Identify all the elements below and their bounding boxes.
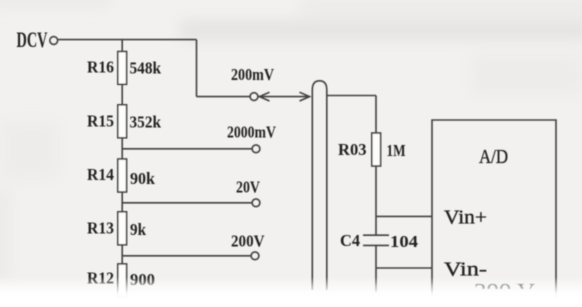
input jack (probe barrel) bbox=[312, 81, 327, 290]
resistor R14 bbox=[118, 159, 127, 192]
wire bbox=[121, 245, 123, 264]
svg-text:R14: R14 bbox=[87, 165, 114, 184]
resistor R13 bbox=[118, 212, 127, 245]
terminal 2000mV bbox=[252, 145, 260, 153]
svg-text:R15: R15 bbox=[87, 112, 114, 131]
wire bbox=[375, 245, 377, 268]
wire bbox=[375, 268, 377, 292]
svg-text:90k: 90k bbox=[130, 169, 156, 188]
svg-text:352k: 352k bbox=[130, 113, 162, 132]
svg-text:104: 104 bbox=[390, 232, 419, 251]
svg-text:9k: 9k bbox=[130, 220, 146, 239]
resistor R03 bbox=[372, 133, 381, 166]
wire bbox=[58, 39, 197, 41]
svg-text:A/D: A/D bbox=[479, 146, 508, 168]
svg-text:20V: 20V bbox=[236, 178, 261, 197]
svg-text:1M: 1M bbox=[387, 141, 406, 160]
wire bbox=[121, 84, 123, 105]
wire bbox=[375, 166, 377, 216]
wire bbox=[197, 96, 251, 98]
wire bbox=[121, 138, 123, 159]
resistor R15 bbox=[118, 105, 127, 138]
wire bbox=[375, 96, 377, 134]
wire bbox=[121, 192, 123, 212]
capacitor C4 bbox=[363, 235, 389, 245]
svg-text:C4: C4 bbox=[340, 231, 360, 250]
terminal 20V bbox=[252, 199, 260, 207]
wire bbox=[122, 255, 251, 257]
wire bbox=[196, 40, 198, 97]
svg-text:Vin+: Vin+ bbox=[444, 207, 487, 229]
resistor R16 bbox=[118, 52, 127, 85]
wire bbox=[376, 215, 432, 217]
terminal DCV input bbox=[50, 37, 58, 45]
wire bbox=[121, 40, 123, 52]
wire bbox=[327, 95, 376, 97]
wire bbox=[375, 216, 377, 235]
svg-text:R16: R16 bbox=[87, 58, 114, 77]
svg-text:200V: 200V bbox=[231, 232, 265, 251]
svg-text:R03: R03 bbox=[338, 140, 367, 159]
resistor R12 bbox=[118, 264, 127, 297]
A/D converter U1 bbox=[432, 120, 556, 300]
svg-text:548k: 548k bbox=[130, 59, 162, 78]
terminal 200V bbox=[251, 252, 259, 260]
svg-text:R13: R13 bbox=[87, 219, 114, 238]
wire bbox=[122, 202, 252, 204]
wire bbox=[376, 267, 432, 269]
wire bbox=[122, 148, 252, 150]
svg-text:DCV: DCV bbox=[17, 27, 48, 52]
svg-text:200mV: 200mV bbox=[231, 65, 275, 84]
switch wiper arrow bbox=[259, 92, 311, 101]
terminal 200mV bbox=[250, 93, 258, 101]
svg-text:2000mV: 2000mV bbox=[227, 123, 277, 142]
